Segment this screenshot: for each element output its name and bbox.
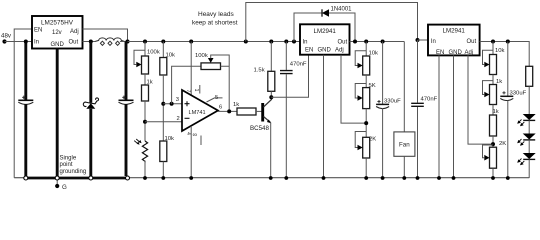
ground dot pin4 (189, 176, 193, 180)
pin 1 stub (199, 85, 201, 94)
diode D1 catch schottky heavy lead top (89, 42, 92, 103)
wire VR3 to VR4 (365, 75, 367, 88)
svg-text:1N4001: 1N4001 (331, 6, 353, 12)
svg-text:10k: 10k (369, 51, 379, 57)
wire inductor to output node (120, 41, 145, 43)
trimpot VR4 wiper strap (355, 84, 366, 99)
ground dot C5 (416, 176, 420, 180)
wire LED3 to ground (528, 159, 530, 178)
transistor Q1 emitter arrow (267, 120, 271, 124)
svg-text:48v: 48v (1, 33, 12, 40)
wire VR7 to R6 (492, 105, 494, 116)
resistor R5 1.5k lead (270, 42, 272, 72)
trimpot VR8 2K body (490, 147, 497, 168)
svg-text:330uF: 330uF (510, 90, 527, 96)
ground dot U4 EN (437, 176, 441, 180)
photoresistor LDR zigzag (142, 141, 147, 161)
wire U3 Adj to divider (341, 55, 366, 123)
pin 8 stub dangling (200, 136, 202, 146)
svg-text:4: 4 (185, 132, 191, 135)
wire R2 to ground (162, 162, 164, 179)
capacitor C6 polarity + (502, 91, 505, 94)
svg-text:Adj: Adj (70, 29, 79, 35)
wire R5 to collector node (270, 91, 272, 97)
node output feedback junction (227, 109, 231, 113)
svg-text:Out: Out (69, 40, 79, 46)
diode D1 cathode bar with schottky hooks (83, 98, 98, 107)
capacitor C3 plates (280, 71, 293, 74)
LED D4 triangle (523, 134, 536, 140)
node diode bypass tap (292, 40, 296, 44)
svg-text:Out: Out (467, 39, 477, 45)
svg-text:LM741: LM741 (189, 110, 206, 116)
capacitor C6 lead bottom (507, 100, 509, 178)
inductor L1 (95, 38, 125, 42)
ground dot C6 (506, 176, 510, 180)
node divider chain B top (161, 40, 165, 44)
diode D1 triangle (86, 103, 95, 109)
svg-text:Adj: Adj (465, 50, 474, 56)
trimpot VR2 100k hysteresis left lead (172, 66, 201, 104)
wire Adj over inductor (83, 29, 128, 42)
ground dot U4 GND (452, 176, 456, 180)
ground terminal G stub (56, 178, 58, 186)
trimpot VR2 100k body horizontal (201, 63, 221, 70)
svg-text:EN: EN (436, 50, 444, 56)
resistor R4 1k base body horizontal (237, 108, 256, 115)
ground circle c2 (55, 176, 59, 180)
svg-text:EN: EN (34, 28, 42, 34)
LED D5 triangle (523, 153, 536, 159)
svg-text:Out: Out (338, 39, 348, 45)
capacitor C5 plates (411, 103, 424, 106)
rail 12V to comparator section (128, 41, 301, 43)
ground dot chain B (161, 176, 165, 180)
node 330uF tap (381, 40, 385, 44)
trimpot VR1 100k body (142, 56, 149, 74)
wire op-amp output (218, 110, 237, 112)
capacitor C3 470nF lead top (285, 42, 287, 71)
capacitor C1 polarity + (22, 96, 25, 99)
svg-text:Fan: Fan (399, 142, 410, 149)
wire R4 to base (256, 110, 262, 112)
svg-text:470nF: 470nF (290, 61, 307, 67)
svg-text:1k: 1k (233, 102, 239, 108)
trimpot VR3 10k body (363, 56, 370, 75)
wire R3 to LDR (144, 101, 146, 141)
node switch node (89, 40, 93, 44)
svg-text:1k: 1k (147, 80, 153, 86)
svg-text:In: In (34, 40, 39, 46)
transistor Q1 BC548 base bar (261, 103, 264, 122)
diode D1 heavy lead bottom (89, 109, 92, 176)
photoresistor LDR arrows (134, 139, 140, 144)
node divider chain A top (143, 40, 147, 44)
wire emitter to ground (270, 123, 272, 179)
trimpot VR3 wiper arrow (358, 63, 363, 69)
trimpot VR5 wiper strap (355, 132, 366, 148)
capacitor C5 470nF lead top (417, 40, 419, 103)
resistor R2 10k body lower (160, 141, 167, 162)
wire diode bypass (294, 13, 355, 42)
capacitor C4 lead bottom (382, 108, 384, 178)
ground dot led divider (491, 176, 495, 180)
capacitor C2 polarity + (122, 96, 125, 99)
wire In U4 (418, 39, 429, 41)
svg-text:EN: EN (305, 47, 313, 53)
trimpot VR7 1k body (490, 85, 497, 105)
node hysteresis tap (170, 102, 174, 106)
node 48v input terminal (2, 39, 6, 43)
svg-text:2K: 2K (499, 141, 506, 147)
capacitor C2 plates (119, 99, 134, 101)
svg-text:10k: 10k (166, 53, 176, 59)
ground bus single point grounding (14, 177, 26, 179)
svg-text:Adj: Adj (335, 47, 344, 53)
wire R7 to LED1 (528, 86, 530, 114)
trimpot VR1 100k lead (144, 42, 146, 57)
op-amp U2 LM741 triangle (182, 90, 218, 131)
trimpot VR3 10k lead (365, 42, 367, 57)
wire collector to EN of U3 (271, 55, 308, 97)
capacitor C4 330uF lead top (382, 42, 384, 105)
ground circle c3 (89, 176, 93, 180)
resistor R7 led series body (526, 66, 533, 86)
ground dot U3 (322, 176, 326, 180)
svg-text:In: In (431, 39, 436, 45)
resistor R1 10k body (160, 58, 167, 76)
LED D3 arrows (518, 120, 524, 126)
node Out U3 (353, 40, 357, 44)
svg-text:1k: 1k (493, 109, 499, 115)
svg-text:GND: GND (449, 50, 463, 56)
ground circle c4 (126, 176, 130, 180)
svg-text:5: 5 (215, 95, 218, 101)
svg-text:2K: 2K (369, 137, 376, 143)
wire U4 Adj to divider (468, 55, 493, 144)
node LED divider top (491, 40, 495, 44)
trimpot VR3 wiper strap (355, 51, 366, 66)
LED D3 cathode bar (523, 119, 535, 121)
node 12V output node (126, 40, 130, 44)
svg-text:2: 2 (177, 116, 180, 122)
trimpot VR6 wiper arrow (484, 62, 489, 68)
trimpot VR6 10k body (490, 55, 497, 75)
svg-text:keep at shortest: keep at shortest (192, 20, 238, 27)
wire U4 Out rail (480, 42, 530, 67)
ground dot emitter (269, 176, 273, 180)
junction dot C1 at input wire (24, 40, 28, 44)
node pin3 junction (161, 102, 165, 106)
capacitor C2 output electrolytic heavy lead top (125, 42, 128, 101)
LED D5 arrows (518, 159, 524, 165)
svg-text:100k: 100k (195, 53, 208, 59)
regulator U1 LM2575HV box (32, 16, 83, 49)
svg-text:Single: Single (60, 156, 77, 162)
svg-text:grounding: grounding (60, 169, 87, 175)
trimpot VR2 wiper strap to right lead (211, 55, 230, 111)
node fan adj junction (364, 121, 368, 125)
LED D4 cathode bar (523, 139, 535, 141)
capacitor C4 plates (376, 103, 389, 105)
trimpot VR8 wiper strap (483, 145, 494, 158)
svg-text:1: 1 (193, 89, 199, 92)
resistor R3 1k body (142, 85, 149, 101)
wire VR1 to R3 (144, 74, 146, 85)
wire U3 GND to ground (323, 55, 325, 178)
trimpot VR6 10k lead (492, 42, 494, 55)
capacitor C1 plates (18, 99, 33, 101)
wire U4 GND to ground (453, 55, 455, 178)
heavy lead U1 GND to ground (56, 49, 59, 177)
transistor Q1 emitter (264, 117, 271, 123)
trimpot VR5 2K body (363, 137, 370, 158)
trimpot VR1 wiper strap (134, 50, 145, 64)
node raw rail tap (244, 40, 248, 44)
wire pin7 supply (190, 42, 192, 96)
svg-text:1.5k: 1.5k (254, 68, 265, 74)
svg-text:12v: 12v (52, 30, 62, 36)
node inverting input tap (143, 120, 147, 124)
capacitor C3 lead bottom (285, 74, 287, 178)
svg-text:In: In (303, 39, 308, 45)
svg-text:Heavy leads: Heavy leads (198, 11, 235, 18)
svg-text:G: G (62, 184, 67, 191)
wire U4 EN to ground (438, 55, 440, 178)
svg-text:3: 3 (176, 97, 179, 103)
node collector (269, 95, 273, 99)
capacitor C1 input electrolytic heavy lead top (24, 42, 27, 101)
svg-text:GND: GND (51, 42, 65, 48)
capacitor C1 heavy lead bottom (24, 104, 27, 176)
wire U3 Out rail (350, 41, 405, 43)
ground dot C3 (284, 176, 288, 180)
capacitor C4 polarity + (377, 100, 380, 103)
node 470nF tap (284, 40, 288, 44)
wire EN to ground (14, 29, 32, 178)
node op-amp supply tap (189, 40, 193, 44)
inductor L1 loop diamonds (100, 41, 119, 45)
svg-text:10k: 10k (165, 136, 175, 142)
wire pin3 (163, 103, 182, 105)
resistor R1 10k lead (162, 42, 164, 58)
node LED adj junction (491, 142, 495, 146)
trimpot VR8 wiper arrow (484, 155, 489, 161)
transistor Q1 collector (264, 97, 272, 107)
svg-text:100k: 100k (147, 50, 160, 56)
wire VR8 to ground (492, 168, 494, 178)
ground circle c1 (24, 176, 28, 180)
diode D2 1N4001 triangle (322, 9, 329, 16)
capacitor C6 330uF lead top (507, 42, 509, 97)
ground dot fan (402, 176, 406, 180)
wire R6 to adj node (492, 136, 494, 147)
LED D3 triangle (523, 114, 536, 120)
capacitor C6 plates (500, 95, 513, 97)
resistor R5 1.5k body (268, 71, 275, 91)
svg-text:5K: 5K (369, 83, 376, 89)
ground terminal G dot (55, 184, 59, 188)
svg-text:470nF: 470nF (421, 96, 438, 102)
trimpot VR5 wiper arrow (358, 145, 363, 151)
ground dot chain A (143, 176, 147, 180)
wire R1 to pin3 node (162, 75, 164, 141)
node fan divider top (364, 40, 368, 44)
wire VR6 to VR7 (492, 75, 494, 85)
regulator U3 LM2941 box (300, 24, 350, 54)
svg-text:BC548: BC548 (250, 125, 269, 132)
pin 5 stub (207, 98, 223, 102)
svg-text:GND: GND (318, 47, 332, 53)
diode D2 cathode bar (321, 9, 323, 16)
node U4 In junction (416, 38, 420, 42)
op-amp plus sign (185, 101, 190, 106)
trimpot VR2 wiper arrow down (208, 58, 214, 63)
wire VR4 to adj node (365, 109, 367, 138)
svg-text:LM2575HV: LM2575HV (41, 19, 74, 26)
svg-text:1k: 1k (496, 79, 502, 85)
resistor R6 1k body (490, 115, 497, 136)
trimpot VR6 wiper strap (483, 50, 494, 64)
trimpot VR4 5K body (363, 88, 370, 109)
svg-text:LM2941: LM2941 (443, 27, 466, 34)
wire LED1 to LED2 (528, 120, 530, 133)
svg-text:point: point (60, 162, 73, 168)
svg-text:10k: 10k (495, 48, 505, 54)
wire pin4 to ground (190, 126, 192, 178)
wire VR5 to ground (365, 158, 367, 178)
wire pin2 (145, 121, 182, 123)
ground dot C4 (381, 176, 385, 180)
wire LED2 to LED3 (528, 140, 530, 153)
svg-text:LM2941: LM2941 (314, 28, 337, 35)
LED D4 arrows (518, 139, 524, 145)
wire fan bottom lead (403, 156, 405, 178)
trimpot VR7 wiper strap (483, 81, 494, 95)
capacitor C2 heavy lead bottom (125, 104, 128, 176)
LED D5 cathode bar (523, 158, 535, 160)
wire LDR to ground (144, 161, 146, 179)
node 1.5k rail tap (269, 40, 273, 44)
op-amp minus sign (185, 117, 190, 119)
node 330uF led tap (506, 40, 510, 44)
svg-text:∞: ∞ (193, 132, 198, 139)
fan M1 box (394, 132, 415, 156)
wire fan top lead (403, 42, 405, 132)
capacitor C5 lead bottom (417, 107, 419, 178)
svg-text:330uF: 330uF (384, 98, 401, 104)
trimpot VR7 wiper arrow (484, 92, 489, 98)
wire 48v to In (5, 41, 33, 43)
trimpot VR1 wiper arrow (136, 62, 141, 68)
regulator U4 LM2941 box (428, 25, 480, 56)
svg-text:6: 6 (219, 105, 222, 111)
trimpot VR4 wiper arrow (358, 95, 363, 101)
ground dot fan divider (364, 176, 368, 180)
wire raw 12V top rail (246, 3, 418, 42)
wire Out to switch node (83, 41, 96, 43)
